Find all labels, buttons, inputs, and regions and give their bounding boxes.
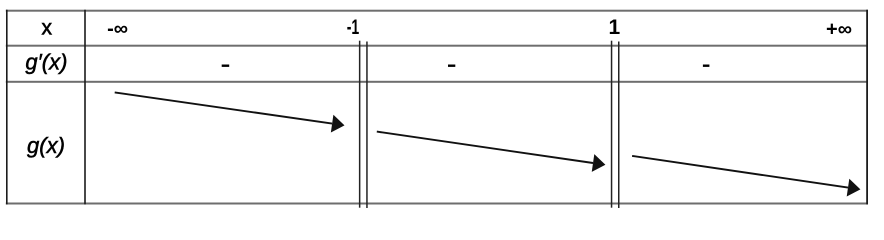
arrow 3 head <box>847 179 861 197</box>
svg-text:g′(x): g′(x) <box>25 50 67 75</box>
svg-text:1: 1 <box>609 16 621 39</box>
sign minus (interval 1) <box>222 65 230 67</box>
sign minus (interval 2) <box>448 65 455 67</box>
row separator line 1 (below x row) <box>6 45 868 47</box>
row separator line 2 (below g'(x) row) <box>6 81 868 83</box>
sign minus (interval 3) <box>703 65 710 67</box>
svg-text:g(x): g(x) <box>27 133 65 158</box>
header column separator <box>84 10 86 205</box>
svg-text:+∞: +∞ <box>826 18 852 40</box>
double bar at x=-1 (left bar) <box>359 41 361 208</box>
arrow 1 shaft (decreasing, -inf to -1) <box>115 92 332 123</box>
double bar at x=-1 (right bar) <box>366 42 368 209</box>
table left border <box>6 10 8 205</box>
arrow 2 shaft (decreasing, -1 to 1) <box>377 132 593 163</box>
svg-text:-1: -1 <box>347 16 360 39</box>
arrow 2 head <box>592 154 606 172</box>
table top border <box>6 10 868 12</box>
svg-text:x: x <box>41 17 52 40</box>
arrow 1 head <box>331 115 345 133</box>
double bar at x=1 (right bar) <box>618 42 620 209</box>
svg-text:-∞: -∞ <box>107 18 128 40</box>
arrow 3 shaft (decreasing, 1 to +inf) <box>632 156 848 188</box>
table bottom border <box>6 203 868 205</box>
double bar at x=1 (left bar) <box>611 41 613 208</box>
table right border <box>866 10 868 205</box>
